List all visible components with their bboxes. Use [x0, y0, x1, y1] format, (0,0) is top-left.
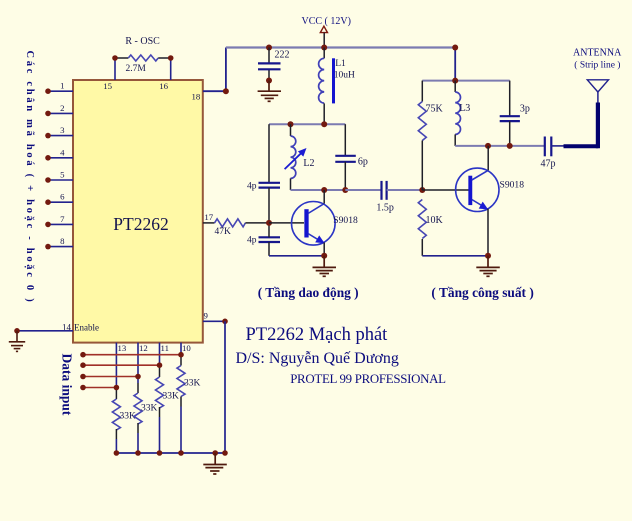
capacitor 1.5p — [345, 181, 422, 214]
svg-text:15: 15 — [103, 81, 112, 91]
wire pin4 — [48, 157, 73, 159]
node dot 222 top — [266, 45, 272, 51]
node dot pin15 — [112, 55, 118, 61]
wire VCC top rail — [226, 46, 455, 48]
wire pin3 — [48, 135, 73, 137]
inductor L1 10uH — [319, 48, 355, 125]
wire pin2 — [48, 112, 73, 114]
power stage top wire — [422, 80, 509, 82]
capacitor 6p — [335, 124, 368, 190]
svg-text:Data input: Data input — [60, 354, 75, 416]
ground (power stage) — [476, 256, 500, 276]
inductor L1 arcs — [319, 58, 325, 103]
node dot Q2 collector — [485, 143, 491, 149]
svg-text:R - OSC: R - OSC — [125, 36, 160, 47]
svg-text:5: 5 — [60, 170, 65, 180]
wire rail down to power stage — [454, 48, 456, 81]
resistor 10K — [418, 200, 443, 256]
wire pin15 stub — [114, 58, 116, 80]
svg-text:4p: 4p — [247, 182, 257, 192]
svg-text:PT2262: PT2262 — [113, 214, 168, 234]
node dot 3p bottom — [507, 143, 513, 149]
svg-text:16: 16 — [159, 81, 168, 91]
antenna strip line vertical bar — [596, 103, 600, 149]
antenna symbol triangle — [587, 80, 608, 92]
antenna stem — [597, 92, 599, 103]
inductor L1 core bar — [332, 58, 335, 103]
pin11 column with resistor 33K — [156, 343, 180, 453]
pin 18 stub wire — [203, 90, 226, 92]
svg-text:L3: L3 — [459, 103, 470, 114]
ground under 222 — [258, 81, 281, 102]
antenna strip line horizontal bar — [564, 144, 599, 148]
capacitor 3p — [500, 81, 530, 146]
inductor L3 — [455, 81, 470, 146]
wire data D1 — [83, 376, 138, 378]
svg-text:47K: 47K — [215, 227, 232, 237]
svg-text:11: 11 — [161, 343, 169, 353]
svg-text:7: 7 — [60, 214, 65, 224]
node dot power top — [452, 78, 458, 84]
pin10 column with resistor 33K — [177, 343, 201, 453]
Q1 base bar — [304, 209, 308, 237]
svg-text:2: 2 — [60, 103, 64, 113]
svg-text:( Tầng dao động ): ( Tầng dao động ) — [258, 285, 359, 300]
svg-text:L1: L1 — [335, 59, 346, 69]
svg-text:ANTENNA: ANTENNA — [573, 47, 622, 58]
oscillator tank: bottom wire — [291, 189, 346, 191]
Q2 collector — [472, 170, 488, 180]
capacitor 222 leads — [268, 48, 270, 64]
svg-text:( Strip line ): ( Strip line ) — [574, 59, 620, 70]
node dot collector/tank — [321, 187, 327, 193]
wire data D0 — [83, 387, 116, 389]
svg-text:1: 1 — [60, 81, 64, 91]
resistor 47K zigzag — [215, 219, 246, 227]
svg-text:47p: 47p — [541, 159, 556, 170]
node dot pin16 — [168, 55, 174, 61]
transistor Q2 S9018 — [456, 146, 525, 256]
svg-text:S9018: S9018 — [333, 215, 358, 226]
node dot L1/tank — [321, 121, 327, 127]
node dot 222 bottom — [266, 78, 272, 84]
node: left coding pins group — [48, 91, 73, 246]
collector node wire — [455, 145, 545, 147]
inductor L2 (variable) — [285, 124, 315, 190]
svg-text:PT2262 Mạch phát: PT2262 Mạch phát — [246, 325, 389, 345]
node dots data wires — [80, 352, 184, 390]
wire 47K to junction — [245, 222, 269, 224]
ground (bottom rail) — [203, 453, 227, 474]
svg-text:4: 4 — [60, 147, 65, 157]
svg-text:2.7M: 2.7M — [126, 64, 147, 74]
power port VCC (12V) — [302, 16, 351, 48]
ground (oscillator) — [313, 256, 337, 276]
wire pin18 up to VCC rail — [225, 48, 227, 92]
svg-text:D/S: Nguyễn Quế Dương: D/S: Nguyễn Quế Dương — [236, 350, 399, 367]
Q2 base bar — [468, 176, 472, 205]
svg-text:4p: 4p — [247, 236, 257, 246]
svg-text:75K: 75K — [426, 104, 444, 115]
pin12 column with resistor 33K — [134, 343, 158, 453]
node dot Q2 base junction — [419, 187, 425, 193]
IC U1 PT2262 body — [73, 80, 203, 343]
node dot VCC/rail — [321, 45, 327, 51]
node dot osc ground — [321, 253, 327, 259]
capacitor 4p (upper) — [247, 124, 280, 223]
node dot power ground — [485, 253, 491, 259]
wire data D3 — [83, 354, 181, 356]
wire junction to Q2 base — [422, 189, 468, 191]
ground (enable) — [9, 331, 25, 352]
wire data D2 — [83, 364, 160, 366]
svg-text:Các chân mã hoá ( + hoặc - h: Các chân mã hoá ( + hoặc - hoặc 0 ) — [24, 51, 35, 305]
node dot enable — [14, 328, 20, 334]
wire pin8 — [48, 246, 73, 248]
svg-text:33K: 33K — [141, 404, 158, 414]
Q1 collector — [308, 204, 324, 214]
resistor R-OSC zigzag — [128, 55, 158, 61]
resistor 75K — [418, 81, 443, 190]
wire pin16 stub — [170, 58, 172, 80]
oscillator emitter/ground wire — [269, 255, 324, 257]
node dot pin18 — [223, 88, 229, 94]
svg-text:33K: 33K — [184, 379, 201, 389]
Q1 emitter with arrow — [308, 234, 320, 241]
capacitor 4p (lower) — [247, 223, 280, 256]
resistor R-OSC 2.7M between pins 15,16 — [103, 36, 173, 91]
svg-text:222: 222 — [275, 50, 290, 61]
wire between 4p caps handled above — [268, 223, 270, 237]
capacitor 222 plates — [258, 62, 281, 64]
transistor Q1 S9018 — [292, 190, 359, 256]
wire pin1 — [48, 90, 73, 92]
svg-text:PROTEL 99 PROFESSIONAL: PROTEL 99 PROFESSIONAL — [290, 372, 446, 386]
pin number labels 1-8 — [60, 81, 65, 246]
svg-text:10K: 10K — [426, 215, 444, 226]
oscillator tank: top wire — [269, 123, 345, 125]
Q2 emitter with arrow — [472, 200, 484, 207]
node dot L2 top — [288, 121, 294, 127]
svg-text:L2: L2 — [303, 158, 314, 169]
svg-text:S9018: S9018 — [500, 180, 525, 191]
wire enable — [17, 330, 73, 332]
svg-text:17: 17 — [204, 212, 213, 222]
wire pin6 — [48, 201, 73, 203]
resistor R-OSC leads — [115, 57, 128, 59]
svg-text:8: 8 — [60, 236, 65, 246]
wire pin5 — [48, 179, 73, 181]
capacitor 222 — [258, 45, 290, 102]
wire junction to Q1 base — [269, 222, 304, 224]
svg-text:12: 12 — [139, 343, 148, 353]
node dot rail end — [452, 45, 458, 51]
node dot pin9 — [222, 319, 228, 325]
svg-text:VCC ( 12V): VCC ( 12V) — [302, 16, 351, 27]
svg-text:1.5p: 1.5p — [376, 203, 394, 214]
svg-text:13: 13 — [118, 343, 127, 353]
svg-text:6: 6 — [60, 192, 65, 202]
svg-text:10uH: 10uH — [334, 70, 355, 80]
capacitor 47p — [541, 137, 564, 170]
svg-text:( Tầng công suất ): ( Tầng công suất ) — [431, 285, 533, 300]
node dot base junction Q1 — [266, 220, 272, 226]
svg-text:3p: 3p — [520, 104, 530, 115]
L2 variable arrow — [285, 151, 304, 169]
node dots bottom rail — [114, 450, 228, 456]
svg-text:Enable: Enable — [74, 322, 99, 332]
svg-text:3: 3 — [60, 125, 65, 135]
svg-text:6p: 6p — [358, 157, 368, 168]
svg-text:10: 10 — [182, 343, 191, 353]
svg-text:9: 9 — [204, 311, 209, 321]
power stage bottom wire — [422, 255, 488, 257]
svg-text:33K: 33K — [163, 392, 180, 402]
node dot tank output — [342, 187, 348, 193]
pin13 column with resistor 33K — [112, 343, 136, 453]
pin 14 Enable — [9, 322, 99, 351]
pin17 stub — [203, 222, 215, 224]
svg-text:18: 18 — [192, 92, 201, 102]
bottom rail wire — [116, 452, 225, 454]
wire L1 to tank — [323, 103, 325, 124]
node dots pins1-8 — [45, 88, 51, 249]
wire rail to L1 — [323, 48, 325, 59]
wire pin7 — [48, 223, 73, 225]
wire pin9 down to bottom rail — [224, 321, 226, 453]
data input red wires — [83, 355, 181, 388]
resistor 47K on pin 17 — [203, 212, 269, 237]
